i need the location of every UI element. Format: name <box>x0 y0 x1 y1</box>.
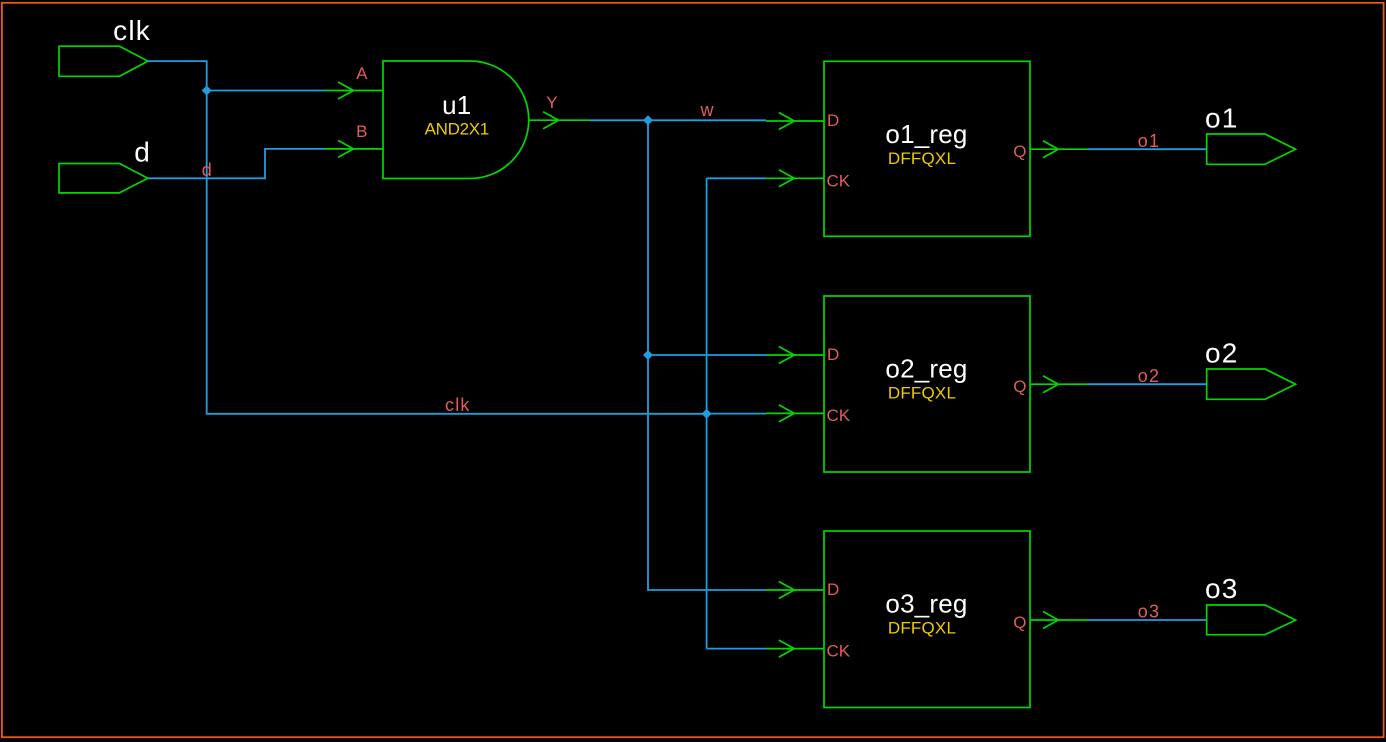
svg-text:Q: Q <box>1013 377 1026 396</box>
svg-text:CK: CK <box>827 642 851 661</box>
svg-text:o2_reg: o2_reg <box>885 354 967 384</box>
svg-text:o3: o3 <box>1138 602 1160 622</box>
svg-text:clk: clk <box>445 395 471 415</box>
svg-text:w: w <box>700 100 715 120</box>
svg-text:o1: o1 <box>1205 103 1239 134</box>
svg-text:D: D <box>827 111 839 130</box>
svg-text:B: B <box>356 122 367 141</box>
svg-text:d: d <box>134 136 151 167</box>
svg-text:Q: Q <box>1013 613 1026 632</box>
svg-text:CK: CK <box>827 171 851 190</box>
svg-text:o3: o3 <box>1205 573 1239 604</box>
svg-text:o1_reg: o1_reg <box>885 119 967 149</box>
svg-text:o2: o2 <box>1138 366 1160 386</box>
svg-text:A: A <box>356 64 368 83</box>
svg-text:u1: u1 <box>442 90 471 120</box>
svg-text:o1: o1 <box>1138 131 1160 151</box>
svg-text:clk: clk <box>113 15 151 46</box>
svg-text:DFFQXL: DFFQXL <box>888 149 956 168</box>
svg-text:o2: o2 <box>1205 338 1239 369</box>
svg-text:D: D <box>827 345 839 364</box>
svg-text:D: D <box>827 580 839 599</box>
svg-text:DFFQXL: DFFQXL <box>888 619 956 638</box>
svg-text:DFFQXL: DFFQXL <box>888 384 956 403</box>
svg-text:o3_reg: o3_reg <box>885 589 967 619</box>
svg-text:AND2X1: AND2X1 <box>425 120 489 139</box>
svg-text:Y: Y <box>546 93 557 112</box>
svg-text:Q: Q <box>1013 142 1026 161</box>
svg-text:CK: CK <box>827 406 851 425</box>
svg-text:d: d <box>202 160 213 180</box>
